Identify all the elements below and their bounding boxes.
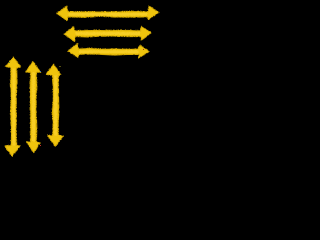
double-headed horizontal arrow H1 (top) — [57, 6, 159, 21]
double-headed horizontal arrow H3 (bottom) — [68, 43, 149, 58]
double-headed vertical arrow V1 (left, longest) — [4, 57, 20, 156]
double-headed vertical arrow V3 (right, shortest) — [46, 64, 63, 146]
double-headed vertical arrow V2 (middle) — [25, 61, 40, 152]
double-headed horizontal arrow H2 (middle) — [64, 26, 151, 41]
stray artifact dots — [9, 49, 144, 146]
